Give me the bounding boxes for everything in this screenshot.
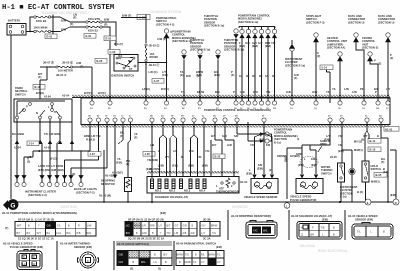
section ref DATA LINK CONNECTOR (SECTION U) 1 <box>348 14 365 103</box>
svg-text:3A: 3A <box>265 74 268 78</box>
svg-text:B-1a): B-1a) <box>274 140 281 144</box>
svg-text:H1-05 VEHICLE SPEED: H1-05 VEHICLE SPEED <box>3 242 33 246</box>
svg-text:G/B: G/B <box>47 224 52 227</box>
svg-text:ST: ST <box>129 67 133 71</box>
tag E-02 <box>84 34 96 39</box>
svg-text:(EM): (EM) <box>160 211 166 215</box>
junction ignition feed <box>166 62 167 63</box>
svg-text:SP(EM): SP(EM) <box>277 154 286 158</box>
svg-text:NO.3: NO.3 <box>184 189 191 193</box>
section ref POWERTRAIN CONTROL MODULE(ENGINE) bracket group <box>238 14 277 104</box>
svg-text:SWITCH: SWITCH <box>321 171 332 175</box>
hold switch <box>362 122 381 202</box>
svg-text:(F): (F) <box>126 162 130 166</box>
svg-text:GM/B: GM/B <box>185 261 192 264</box>
svg-text:PULSE GENERATOR (EM): PULSE GENERATOR (EM) <box>10 245 43 249</box>
svg-text:Y/B (EM): Y/B (EM) <box>147 158 158 162</box>
svg-text:BR/W: BR/W <box>197 90 205 94</box>
tag B-14 top <box>320 65 333 70</box>
wires PCM left bank down with jogs <box>24 122 131 183</box>
svg-text:(EM): (EM) <box>216 245 222 249</box>
svg-text:H1-01 POWERTRAIN CONTROL MODUL: H1-01 POWERTRAIN CONTROL MODULE(TRANSMIS… <box>2 211 77 215</box>
svg-text:H1-03(M): H1-03(M) <box>149 167 160 171</box>
divider <box>56 241 58 270</box>
svg-text:(F): (F) <box>38 75 42 79</box>
tag J-07 <box>88 152 101 157</box>
hatch seam H1-03 above solenoid box <box>147 171 239 173</box>
svg-text:(F): (F) <box>294 76 298 80</box>
grid ref bubble G (black) <box>3 200 8 210</box>
svg-text:B: B <box>377 134 379 138</box>
svg-text:B/W: B/W <box>61 19 67 23</box>
svg-text:U/H: U/H <box>245 41 250 45</box>
svg-text:(EM): (EM) <box>338 149 344 153</box>
wire battery to ground G <box>10 35 12 199</box>
svg-text:2Q: 2Q <box>144 108 147 110</box>
svg-text:(EM): (EM) <box>116 161 122 165</box>
svg-text:B/T(G): B/T(G) <box>36 91 44 95</box>
svg-text:L/W: L/W <box>352 90 357 94</box>
node main bus <box>51 15 53 38</box>
svg-text:C-03: C-03 <box>110 50 116 54</box>
svg-text:L/B: L/B <box>150 143 154 147</box>
svg-text:2Q 2O 2M 2K 2I 2G 2E 2C: 2Q 2O 2M 2K 2I 2G 2E 2C 2A <box>128 237 164 241</box>
connector view H1-02 dropping resistor <box>231 214 277 238</box>
svg-text:H1-02 (M): H1-02 (M) <box>99 194 111 198</box>
svg-text:BACK-UP LIGHTS: BACK-UP LIGHTS <box>74 187 97 191</box>
svg-text:SENSOR (EM): SENSOR (EM) <box>355 218 373 222</box>
fuse KOA BTN <box>86 17 102 23</box>
grid ref bubble E on bus <box>365 199 371 205</box>
svg-text:L/R (G): L/R (G) <box>149 70 158 74</box>
vehicle speed sensor box <box>240 122 278 199</box>
svg-text:INSTRUMENT CLUSTER: INSTRUMENT CLUSTER <box>25 190 56 194</box>
svg-text:A/W: A/W <box>76 61 82 65</box>
wire fuse outputs to right <box>102 18 116 65</box>
svg-text:JB-05 Ⓠ: JB-05 Ⓠ <box>62 61 73 65</box>
tag J-05 <box>143 152 155 157</box>
svg-text:1G: 1G <box>253 108 256 110</box>
svg-text:L/Y: L/Y <box>217 261 221 264</box>
svg-text:GRD: GRD <box>296 152 302 156</box>
svg-text:W/T: W/T <box>37 232 42 235</box>
svg-text:B: B <box>383 230 385 234</box>
svg-text:L/Y: L/Y <box>386 87 390 91</box>
svg-text:Y/L: Y/L <box>326 90 331 94</box>
svg-text:(EM): (EM) <box>383 170 389 174</box>
tag E-01 <box>45 34 57 39</box>
svg-text:E: E <box>367 201 369 205</box>
svg-text:(EM): (EM) <box>265 44 271 48</box>
connector view H1-01 right half <box>125 218 197 241</box>
svg-text:(F): (F) <box>73 16 77 20</box>
wires PCM to solenoid valves <box>146 122 211 178</box>
svg-text:IG1: IG1 <box>118 54 123 58</box>
svg-text:JB-03 Ⓢ: JB-03 Ⓢ <box>149 44 160 48</box>
svg-text:E-1a): E-1a) <box>340 195 347 199</box>
svg-text:H1-02(F): H1-02(F) <box>112 171 123 175</box>
svg-text:(SECTION F-2): (SECTION F-2) <box>76 191 95 195</box>
wire right column risers <box>327 70 379 103</box>
divider <box>113 241 115 270</box>
svg-text:HARNESS: HARNESS <box>232 205 248 209</box>
svg-text:BATTERY: BATTERY <box>8 19 21 23</box>
divider <box>288 210 290 240</box>
svg-text:1R 1P 1M 1L 1J 1H 1F 1D: 1R 1P 1M 1L 1J 1H 1F 1D 1B <box>18 218 54 222</box>
svg-text:L/G: L/G <box>126 224 130 227</box>
svg-text:P: P <box>233 90 235 94</box>
svg-text:B/O: B/O <box>126 232 130 235</box>
svg-text:H1-02 DROPPING RESISTOR(F): H1-02 DROPPING RESISTOR(F) <box>231 214 271 218</box>
svg-text:J-14: J-14 <box>29 142 35 146</box>
svg-text:MILLENIA: MILLENIA <box>300 244 316 248</box>
dropping resistor R1 <box>99 122 132 202</box>
svg-text:RESISTOR: RESISTOR <box>101 182 115 186</box>
svg-text:B/R: B/R <box>186 74 191 78</box>
svg-text:(EM): (EM) <box>257 167 263 171</box>
svg-text:JB-07 Ⓡ: JB-07 Ⓡ <box>43 61 54 65</box>
svg-text:A/B: A/B <box>183 232 187 235</box>
wire ignition feed <box>121 15 146 44</box>
vehicle speed pulse generator box <box>290 122 330 202</box>
svg-text:(EM): (EM) <box>322 217 328 221</box>
wire code labels below PCM right <box>211 134 379 142</box>
svg-text:(EM): (EM) <box>158 164 164 168</box>
PCM bottom row pins <box>88 118 383 122</box>
svg-text:G/W: G/W <box>312 90 318 94</box>
svg-text:T/C L/R BRN: T/C L/R BRN <box>44 132 60 136</box>
svg-text:LG: LG <box>23 263 26 266</box>
svg-text:U/B: U/B <box>240 90 245 94</box>
svg-text:N: N <box>36 111 38 115</box>
svg-text:BR: BR <box>311 233 315 236</box>
wire throttle aux <box>234 29 238 33</box>
svg-text:W/G: W/G <box>87 232 92 235</box>
svg-text:B-16: B-16 <box>370 148 376 152</box>
svg-text:R: R <box>181 155 183 159</box>
svg-text:(1): (1) <box>158 267 161 271</box>
svg-text:G/R: G/R <box>227 143 232 147</box>
divider line bottom section <box>227 210 229 240</box>
svg-text:BRW L/R T/B: BRW L/R T/B <box>84 134 101 138</box>
svg-text:G/T: G/T <box>363 134 368 138</box>
svg-text:G/W: G/W <box>142 232 148 235</box>
svg-text:(CR): (CR) <box>162 73 168 77</box>
svg-text:H1-01: H1-01 <box>385 127 393 131</box>
battery B1 <box>7 19 26 36</box>
svg-text:SWITCH: SWITCH <box>15 92 26 96</box>
svg-text:B/W (F): B/W (F) <box>122 14 132 18</box>
svg-text:(F): (F) <box>80 65 84 69</box>
svg-text:Y/R: Y/R <box>197 155 202 159</box>
svg-text:(EM): (EM) <box>298 163 304 167</box>
svg-text:L/R: L/R <box>142 224 146 227</box>
svg-text:LG: LG <box>154 261 157 264</box>
svg-text:(SECTION B-1a): (SECTION B-1a) <box>238 20 258 24</box>
PCM top row pins <box>90 101 390 105</box>
svg-text:CRANKING SYSTEM: CRANKING SYSTEM <box>150 10 182 14</box>
tag B-16 <box>368 147 381 152</box>
tag C-03 <box>108 50 120 55</box>
svg-text:1W: 1W <box>376 108 379 110</box>
svg-text:W/L: W/L <box>263 229 268 233</box>
svg-text:L/Y: L/Y <box>201 261 205 264</box>
svg-text:JOINT BOX: JOINT BOX <box>60 205 78 209</box>
throttle sensor pin B <box>197 50 202 103</box>
tag B-14 <box>368 139 381 144</box>
svg-text:B-22: B-22 <box>215 155 221 159</box>
svg-text:1Q: 1Q <box>314 108 317 110</box>
svg-text:3C: 3C <box>252 74 255 78</box>
svg-text:L/GW Y/G L/Y BR/W: L/GW Y/G L/Y BR/W <box>38 164 64 168</box>
tag A-07 <box>152 79 164 84</box>
svg-text:(EM): (EM) <box>246 172 252 176</box>
svg-text:(F): (F) <box>104 23 108 27</box>
PCM pin number texts <box>88 107 389 118</box>
svg-text:2G: 2G <box>198 108 201 110</box>
ATF thermosensor inside assembly <box>226 178 230 188</box>
back-up lights pin <box>74 175 97 194</box>
svg-text:T/G: T/G <box>212 232 216 235</box>
park/neutral switch pin table H2-04 <box>176 242 224 266</box>
svg-text:B/L: B/L <box>120 131 125 135</box>
svg-text:R/G: R/G <box>189 149 194 153</box>
faint scan bleed-through smudges (decorative) <box>42 10 348 253</box>
svg-text:B/W: B/W <box>104 18 110 22</box>
svg-text:G/O: G/O <box>119 261 124 264</box>
svg-text:WIRE: WIRE <box>320 142 327 146</box>
svg-text:KOG B2: KOG B2 <box>36 19 47 23</box>
svg-text:(SECTION U): (SECTION U) <box>348 20 364 24</box>
svg-text:P: P <box>375 90 377 94</box>
svg-text:J-05: J-05 <box>145 152 151 156</box>
svg-text:BR/W: BR/W <box>211 224 218 227</box>
svg-text:BODY ELECTRICAL: BODY ELECTRICAL <box>318 249 348 253</box>
svg-text:T/B: T/B <box>321 226 325 229</box>
svg-text:G/Y: G/Y <box>258 41 263 45</box>
svg-text:G/R: G/R <box>222 134 227 138</box>
svg-text:SENSOR (EM): SENSOR (EM) <box>74 245 92 249</box>
svg-text:F/B: F/B <box>266 143 270 147</box>
hatch seam A3-04 above PCM <box>62 94 390 98</box>
svg-text:B/Y(F): B/Y(F) <box>161 87 169 91</box>
svg-text:B/Y: B/Y <box>212 143 217 147</box>
svg-text:B/Y: B/Y <box>164 254 168 257</box>
fuse KOA B1 <box>86 26 102 33</box>
svg-text:P: P <box>26 105 28 109</box>
ground bus line <box>8 201 399 203</box>
svg-text:B-14: B-14 <box>370 139 376 143</box>
solenoid valve assembly box (EC-AT) <box>147 177 239 199</box>
svg-text:B/T: B/T <box>167 224 171 227</box>
svg-text:Q: Q <box>301 233 303 236</box>
section ref THROTTLE POSITION SENSOR <box>204 14 224 28</box>
svg-text:(SECTION U): (SECTION U) <box>378 20 394 24</box>
tag B-06 <box>95 59 107 64</box>
svg-text:(SECTION 4-2): (SECTION 4-2) <box>156 22 174 26</box>
svg-text:Y/B: Y/B <box>338 143 343 147</box>
svg-text:E-01: E-01 <box>47 35 53 39</box>
svg-text:(SECTION C-2): (SECTION C-2) <box>28 193 47 197</box>
svg-text:(EM): (EM) <box>188 164 194 168</box>
svg-text:B-05: B-05 <box>376 173 382 177</box>
svg-text:G/R: G/R <box>183 224 188 227</box>
throttle sensor pin A <box>181 38 210 103</box>
svg-text:(SECTION B-1a): (SECTION B-1a) <box>204 24 224 28</box>
svg-text:Y/G: Y/G <box>253 229 257 233</box>
svg-text:L/R(G): L/R(G) <box>142 87 150 91</box>
svg-text:NO.1: NO.1 <box>155 189 162 193</box>
svg-text:H1-04: H1-04 <box>240 180 248 184</box>
section ref DATA LINK CONNECTOR (SECTION U) 2 <box>378 14 395 103</box>
svg-text:1O: 1O <box>290 108 293 110</box>
svg-text:(F): (F) <box>381 160 385 164</box>
svg-text:G/Y: G/Y <box>202 224 207 227</box>
section ref HEATER CONTROL UNIT (AMPLIFIER) <box>327 36 348 103</box>
svg-text:3B: 3B <box>246 74 249 78</box>
tag B-22 <box>213 154 225 159</box>
svg-text:Y/G: Y/G <box>205 149 210 153</box>
hatch seam below PCM with tag H1-01 <box>81 125 399 131</box>
wire code labels dropping resistor area <box>105 131 139 178</box>
svg-text:BR/W: BR/W <box>134 224 141 227</box>
svg-text:(F): (F) <box>180 73 184 77</box>
svg-text:Y/B: Y/B <box>266 90 271 94</box>
divider <box>173 241 175 270</box>
svg-text:Y/L: Y/L <box>117 157 122 161</box>
tag J-14 <box>27 141 39 146</box>
connector view H1-04 vehicle speed sensor <box>348 214 393 239</box>
wire code labels upper mid <box>142 74 377 94</box>
svg-text:23-05: 23-05 <box>330 155 337 159</box>
svg-text:A3-04: A3-04 <box>62 94 70 98</box>
svg-text:J-07: J-07 <box>90 152 96 156</box>
svg-text:R/G: R/G <box>141 261 146 264</box>
svg-text:R/L: R/L <box>201 254 205 257</box>
svg-text:JB-01 Ⓣ: JB-01 Ⓣ <box>149 63 160 67</box>
svg-text:2R 2P 2N 2L 2J 2H 2F 2D: 2R 2P 2N 2L 2J 2H 2F 2D 2B <box>128 218 164 222</box>
wire code labels above PCM entry <box>181 90 235 94</box>
svg-text:B/Y(F): B/Y(F) <box>98 91 106 95</box>
svg-text:(SECTION E-1a): (SECTION E-1a) <box>285 63 305 67</box>
svg-text:L/Y: L/Y <box>159 224 163 227</box>
svg-text:A/R: A/R <box>191 232 195 235</box>
svg-text:R B/LB: R B/LB <box>86 138 95 142</box>
instrument cluster pins <box>14 175 73 197</box>
svg-text:P/L: P/L <box>360 87 365 91</box>
svg-text:S/R: S/R <box>234 134 239 138</box>
svg-text:Y/G: Y/G <box>250 143 255 147</box>
svg-text:3C 3A: 3C 3A <box>203 237 211 241</box>
svg-text:F/B: F/B <box>258 163 262 167</box>
svg-text:G/H: G/H <box>253 90 258 94</box>
section ref INSTRUMENT CLUSTER E-1a <box>285 40 305 103</box>
svg-text:L/G: L/G <box>173 149 177 153</box>
wires ATF thermosensor feeds <box>152 122 234 202</box>
connector view H1-06 water thermosensor <box>60 242 99 269</box>
svg-text:3D 3B: 3D 3B <box>203 218 211 222</box>
svg-text:1M: 1M <box>273 108 276 110</box>
fuse 100A MAIN <box>34 26 51 33</box>
svg-text:S: S <box>54 110 56 114</box>
svg-text:2O: 2O <box>164 108 167 110</box>
water thermo switch <box>321 122 345 202</box>
svg-text:B/G: B/G <box>67 232 71 235</box>
svg-text:A-07: A-07 <box>154 79 160 83</box>
svg-text:(F): (F) <box>120 134 124 138</box>
svg-text:M/Y(1): M/Y(1) <box>354 140 362 144</box>
svg-text:G/B: G/B <box>119 254 124 257</box>
svg-text:ILLUMINATION AND METERS: ILLUMINATION AND METERS <box>42 11 86 15</box>
svg-text:H2-04 PARK/NEUTRAL SWITCH: H2-04 PARK/NEUTRAL SWITCH <box>176 242 216 246</box>
svg-text:Y/L: Y/L <box>134 132 139 136</box>
svg-text:JB-04 ①: JB-04 ① <box>56 73 67 77</box>
svg-text:P: P <box>374 59 376 63</box>
svg-text:(T): (T) <box>5 226 9 230</box>
svg-text:R: R <box>78 224 80 227</box>
svg-text:R/B: R/B <box>77 232 81 235</box>
svg-text:T/L: T/L <box>357 230 361 234</box>
tag B-05 <box>374 173 387 178</box>
ignition switch <box>111 54 138 78</box>
svg-text:(2): (2) <box>390 56 393 60</box>
wire battery to main fuse <box>26 17 34 32</box>
svg-text:PULSE GENERATOR: PULSE GENERATOR <box>290 198 317 202</box>
svg-text:D: D <box>395 201 397 205</box>
svg-text:E-03: E-03 <box>106 37 112 41</box>
svg-text:(F): (F) <box>70 22 74 26</box>
wire meter feeds down <box>40 64 110 103</box>
svg-text:(2): (2) <box>27 160 30 164</box>
svg-text:L/LG: L/LG <box>56 232 61 235</box>
svg-text:L/W: L/W <box>87 224 92 227</box>
svg-text:VEHICLE SPEED SENSOR: VEHICLE SPEED SENSOR <box>244 195 278 199</box>
svg-text:10A METER: 10A METER <box>58 69 73 73</box>
wires P/N switch to cluster <box>12 119 74 183</box>
svg-text:NO.2: NO.2 <box>169 189 176 193</box>
svg-text:KOA B1: KOA B1 <box>88 29 99 33</box>
tag B-18 <box>33 85 45 90</box>
svg-text:B/Y(F): B/Y(F) <box>84 91 92 95</box>
svg-text:T/L: T/L <box>181 90 185 94</box>
svg-text:L/B: L/B <box>175 232 179 235</box>
svg-text:H1-04 VEHICLE SPEED: H1-04 VEHICLE SPEED <box>348 214 378 218</box>
svg-text:4J-04: 4J-04 <box>44 146 51 150</box>
svg-text:R/W: R/W <box>150 224 155 227</box>
svg-text:M/W(1): M/W(1) <box>371 180 380 184</box>
svg-text:L/Y: L/Y <box>165 155 169 159</box>
svg-text:(2): (2) <box>269 168 272 172</box>
svg-text:(EM): (EM) <box>252 44 258 48</box>
connector view H1-01 third segment <box>200 218 220 241</box>
svg-text:(EM) (EM) (EM) (EM): (EM) (EM) (EM) (EM) <box>38 168 64 172</box>
svg-text:3E: 3E <box>272 74 275 78</box>
section ref powertrain control module engine (below PCM) <box>237 122 298 144</box>
svg-text:Y/L: Y/L <box>332 87 337 91</box>
svg-text:M/W(1): M/W(1) <box>354 148 363 152</box>
svg-text:(2): (2) <box>317 54 320 58</box>
svg-text:B/Y: B/Y <box>27 232 31 235</box>
svg-text:(EM): (EM) <box>239 44 245 48</box>
section ref PARK/NEUTRAL SWITCH (SECTION 4-2) <box>156 16 177 103</box>
wire right edge risers <box>381 122 396 202</box>
svg-text:BR/W: BR/W <box>209 254 216 257</box>
fuse 10A METER row with JB-07 JB-05 <box>38 61 92 80</box>
svg-text:1B: 1B <box>239 74 242 78</box>
hold indicator lamp <box>340 150 358 202</box>
svg-text:B (2): B (2) <box>357 190 363 194</box>
svg-text:B/Y: B/Y <box>17 232 21 235</box>
